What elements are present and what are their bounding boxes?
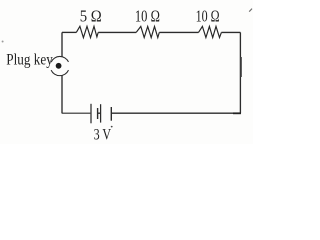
wire between R2 and R3 [159, 31, 198, 33]
battery cell plate short 1 [97, 108, 99, 119]
plug key K bottom arc [51, 70, 68, 76]
wire right vertical darker blob [240, 57, 242, 77]
svg-text:10 Ω: 10 Ω [196, 7, 220, 26]
resistor R1 5 ohm [76, 26, 98, 37]
plug key K contact dot [56, 63, 62, 69]
wire top-left segment [62, 31, 76, 33]
battery cell plate long 1 [90, 104, 92, 124]
speck left edge [2, 41, 4, 43]
battery inter-cell connector wire [98, 112, 101, 114]
svg-text:10 Ω: 10 Ω [135, 7, 160, 26]
wire between R1 and R2 [98, 31, 136, 33]
wire top-right segment [221, 31, 240, 33]
svg-text:Plug key: Plug key [6, 51, 53, 68]
svg-text:5 Ω: 5 Ω [80, 7, 102, 26]
plug key K top arc [51, 56, 68, 62]
speck near battery [111, 126, 113, 128]
wire bottom-left segment [62, 112, 91, 114]
speck top right tick [249, 9, 252, 12]
wire left vertical upper [61, 32, 63, 56]
wire bottom-right segment [112, 112, 241, 114]
resistor R2 10 ohm [136, 26, 159, 37]
wire bottom corner dark [233, 112, 241, 114]
wire left vertical lower [61, 75, 63, 113]
wire right vertical [239, 32, 241, 113]
svg-text:3 V: 3 V [94, 127, 112, 144]
battery cell plate short 2 [110, 107, 112, 121]
battery cell plate long 2 [100, 104, 102, 122]
resistor R3 10 ohm [199, 26, 222, 37]
